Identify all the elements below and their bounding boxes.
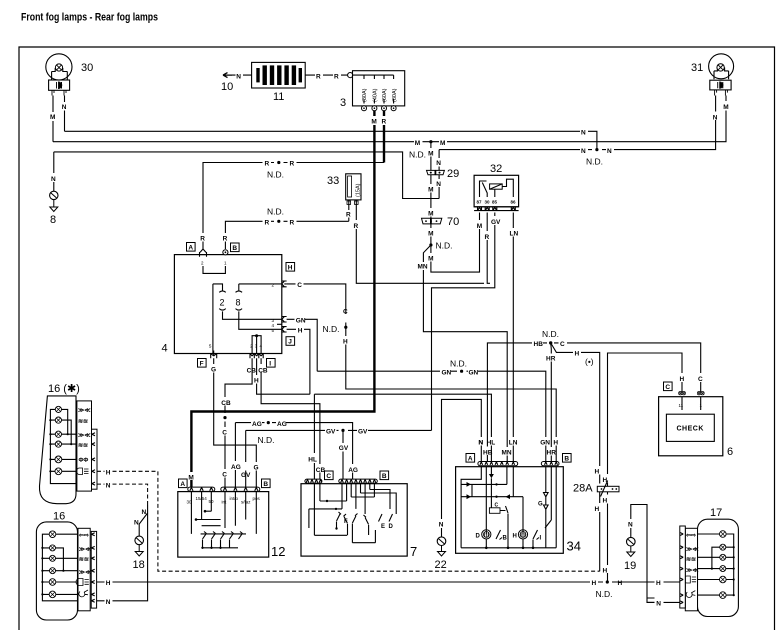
ground 18 — [135, 536, 144, 556]
switch 7 box — [301, 484, 407, 556]
svg-text:16: 16 — [53, 511, 65, 523]
svg-text:33: 33 — [327, 175, 339, 187]
svg-text:H: H — [603, 567, 608, 574]
svg-text:B: B — [263, 481, 268, 488]
svg-text:N: N — [478, 440, 483, 447]
svg-text:30: 30 — [81, 62, 93, 74]
svg-text:C: C — [326, 473, 331, 480]
svg-text:N.D.: N.D. — [267, 170, 284, 180]
connector 17 body — [698, 519, 739, 616]
wire N to ground 22 — [442, 399, 482, 537]
svg-text:29: 29 — [447, 168, 459, 180]
relay 32 — [474, 175, 518, 210]
wire AG line — [234, 423, 236, 488]
wire GV from relay pin 85 — [432, 213, 495, 431]
svg-text:≫≪: ≫≪ — [686, 547, 699, 553]
wire N corner from 29 — [438, 150, 440, 199]
svg-text:Front fog lamps - Rear fog lam: Front fog lamps - Rear fog lamps — [21, 12, 158, 24]
svg-text:G: G — [254, 465, 259, 472]
svg-text:70: 70 — [447, 216, 459, 228]
svg-text:N.D.: N.D. — [450, 359, 467, 369]
svg-text:H: H — [513, 534, 517, 540]
svg-text:M: M — [371, 119, 376, 126]
svg-text:19: 19 — [624, 560, 636, 572]
17 lamps and wiring — [698, 531, 735, 599]
wire N into 17 — [647, 601, 680, 603]
svg-text:M: M — [477, 223, 482, 230]
wire CB from unit4 bottom pin4 — [261, 358, 320, 479]
wire G from unit4 pin F — [214, 358, 257, 487]
svg-text:N: N — [628, 522, 633, 529]
svg-text:(30A): (30A) — [362, 88, 368, 102]
svg-text:H: H — [595, 469, 600, 476]
svg-text:86: 86 — [511, 200, 517, 205]
wire R line lower (fuse 33 to unit4 pin B) — [225, 221, 348, 249]
label GN at unit4 pin H3 — [287, 319, 318, 371]
svg-text:B: B — [232, 245, 237, 252]
wire M branch to relay 32 pin 87 — [431, 213, 480, 273]
fuse panel pins — [362, 106, 397, 111]
svg-text:11: 11 — [273, 91, 284, 103]
wire HR branch — [550, 343, 553, 462]
wire M thick from fuse 40A down — [191, 111, 374, 487]
svg-text:A: A — [180, 481, 185, 488]
wire M vertical through 29 and 70 — [430, 142, 432, 245]
ground-8 line horizontal — [54, 152, 439, 199]
wire CB from unit4 bottom pin2 to C riser — [225, 358, 252, 487]
fuse panel 3 — [353, 71, 405, 106]
splice H N.D. bottom — [606, 580, 609, 583]
svg-text:≫≪: ≫≪ — [686, 568, 699, 574]
unit4 bottom pins F and I — [198, 351, 276, 368]
svg-text:H: H — [106, 470, 111, 477]
ground 8 — [50, 191, 58, 211]
svg-text:N: N — [134, 520, 139, 527]
svg-text:N: N — [581, 129, 586, 136]
svg-text:≫≪: ≫≪ — [78, 408, 91, 414]
wire N from 16 to ground 18 — [97, 513, 148, 601]
unit4 right pins H group — [272, 263, 295, 346]
svg-text:GV: GV — [339, 445, 349, 452]
svg-text:(40A): (40A) — [373, 88, 379, 102]
svg-text:C: C — [560, 341, 565, 348]
svg-text:H: H — [656, 580, 661, 587]
connector 70 — [422, 218, 442, 224]
16(*) pin column — [92, 429, 98, 489]
svg-text:LN: LN — [509, 440, 518, 447]
svg-text:8: 8 — [50, 214, 56, 226]
wire H from CHECK down to bottom splice — [608, 353, 683, 486]
svg-text:4: 4 — [162, 343, 168, 355]
16 lamps and wiring — [41, 531, 78, 601]
svg-text:R: R — [334, 73, 339, 80]
svg-text:(•): (•) — [585, 357, 594, 367]
svg-text:R: R — [316, 73, 321, 80]
16 icon strip — [76, 528, 91, 611]
svg-text:C: C — [698, 376, 703, 383]
svg-text:31: 31 — [691, 62, 703, 74]
svg-text:A: A — [468, 456, 473, 463]
16 pin column — [91, 531, 96, 608]
svg-text:C: C — [665, 384, 670, 391]
17 icon strip — [683, 528, 698, 611]
svg-text:C: C — [495, 503, 499, 509]
svg-text:CB: CB — [221, 400, 231, 407]
svg-text:N: N — [439, 522, 444, 529]
svg-text:17: 17 — [710, 507, 722, 519]
svg-text:CB: CB — [258, 368, 268, 375]
svg-text:R: R — [265, 220, 270, 227]
svg-text:M: M — [440, 140, 445, 147]
svg-text:N.D.: N.D. — [267, 207, 284, 217]
svg-text:C: C — [297, 282, 302, 289]
svg-text:GV: GV — [491, 219, 501, 226]
svg-text:R: R — [346, 212, 351, 219]
svg-text:87: 87 — [477, 200, 483, 205]
connector 29 — [427, 170, 445, 174]
label C at unit4 pin H2 — [287, 284, 346, 307]
svg-text:M: M — [428, 151, 433, 158]
svg-text:R: R — [382, 119, 387, 126]
svg-text:D: D — [389, 524, 394, 530]
34 connector B strip — [541, 454, 571, 466]
svg-text:C: C — [222, 472, 227, 479]
wire GV line with splice — [245, 430, 247, 487]
svg-text:16 (✱): 16 (✱) — [48, 383, 80, 395]
connector 16(*) body — [39, 396, 76, 504]
svg-text:18: 18 — [133, 559, 145, 571]
34 connector A strip — [466, 454, 518, 466]
svg-text:AG: AG — [231, 464, 241, 471]
item 11 (fusible link box) — [252, 62, 306, 88]
svg-text:R: R — [290, 220, 295, 227]
svg-text:HB: HB — [534, 341, 544, 348]
svg-text:CHECK: CHECK — [677, 426, 704, 433]
wire R fuse33 left pin to lower R line — [348, 205, 350, 222]
svg-text:D: D — [476, 534, 481, 540]
junction splice M N.D. — [429, 140, 432, 143]
svg-text:GN: GN — [442, 369, 452, 376]
svg-text:H: H — [254, 378, 259, 385]
unit4 pin A — [187, 243, 207, 266]
svg-text:H: H — [575, 351, 580, 358]
svg-text:G: G — [538, 502, 543, 508]
wire N dashed from 16(*) to ground 18 — [97, 484, 148, 505]
svg-text:N.D.: N.D. — [436, 241, 453, 251]
switch7 internal wiring — [309, 484, 396, 543]
svg-text:≋≊: ≋≊ — [78, 419, 88, 425]
svg-text:(80A): (80A) — [392, 88, 398, 102]
wire HL line to 34 — [314, 394, 491, 461]
CHECK unit 6 — [659, 382, 723, 456]
svg-text:N.D.: N.D. — [409, 150, 426, 160]
svg-text:CB: CB — [247, 368, 257, 375]
svg-text:GV: GV — [326, 429, 336, 436]
svg-text:int/o: int/o — [230, 496, 239, 501]
16(*) lamps and wiring — [49, 406, 91, 483]
svg-text:AG: AG — [348, 467, 358, 474]
wire R item11 to fuse panel 3 — [305, 74, 348, 76]
svg-text:N: N — [713, 115, 718, 122]
svg-text:N: N — [106, 599, 111, 606]
fuse 33 (15A) — [346, 174, 362, 205]
svg-text:(60A): (60A) — [382, 88, 388, 102]
svg-text:H: H — [680, 376, 685, 383]
svg-text:C: C — [222, 430, 227, 437]
wire R fuse33 right pin down to relay 32 feed — [356, 205, 490, 284]
svg-text:C: C — [343, 308, 348, 315]
svg-text:N: N — [436, 181, 441, 188]
svg-text:≫≪: ≫≪ — [78, 433, 91, 439]
label H at unit4 pin H5 — [287, 329, 310, 394]
svg-text:N: N — [581, 148, 586, 155]
connector 16 body — [36, 522, 77, 620]
svg-text:30: 30 — [485, 200, 491, 205]
unit4 internal contacts 2 and 8 — [213, 284, 282, 354]
svg-text:GN: GN — [296, 317, 306, 324]
unit 4 box — [174, 255, 281, 354]
wire H solid from 16 across page — [97, 581, 680, 583]
svg-text:N: N — [236, 73, 241, 80]
svg-text:R: R — [200, 235, 205, 242]
svg-text:R: R — [485, 234, 490, 241]
wire GN horizontal with N.D. splice — [317, 371, 546, 461]
svg-text:MN: MN — [418, 264, 428, 271]
svg-text:J: J — [288, 339, 292, 346]
wire N lamp30 down — [64, 96, 66, 132]
lamp 30 (front fog lamp left) — [46, 54, 72, 96]
wire R thick from fuse 60A down — [383, 111, 385, 163]
svg-text:HL: HL — [308, 456, 317, 463]
svg-text:N.D.: N.D. — [323, 324, 340, 334]
svg-text:32: 32 — [490, 163, 502, 175]
unit4 internal top bracket — [203, 266, 225, 273]
svg-text:7: 7 — [410, 544, 417, 559]
svg-text:H: H — [553, 440, 558, 447]
svg-text:28A: 28A — [573, 483, 593, 495]
wire H below 28A to bottom splice — [607, 492, 609, 582]
svg-text:ΦΦ: ΦΦ — [79, 458, 89, 464]
svg-text:8: 8 — [236, 298, 241, 308]
svg-text:N: N — [106, 482, 111, 489]
svg-text:M: M — [428, 187, 433, 194]
svg-text:GV: GV — [358, 429, 368, 436]
arrow 10 — [223, 73, 232, 78]
switch7 connector B strip — [339, 471, 389, 483]
16(*) icon strip — [77, 401, 92, 491]
svg-text:N: N — [436, 160, 441, 167]
svg-text:M: M — [428, 211, 433, 218]
wire M horizontal lamp30 to lamp31 — [53, 96, 726, 142]
ground 19 wire N — [631, 505, 655, 603]
wire GV branch down to switch 7 — [342, 430, 344, 479]
wire N horizontal to x596.9 — [65, 131, 597, 149]
svg-text:≋≊: ≋≊ — [78, 443, 88, 449]
svg-text:N: N — [607, 148, 612, 155]
svg-text:N: N — [62, 104, 67, 111]
svg-text:H: H — [592, 580, 597, 587]
svg-text:R: R — [290, 161, 295, 168]
svg-text:H: H — [343, 339, 348, 346]
svg-text:≋≊: ≋≊ — [686, 557, 696, 563]
svg-text:N.D.: N.D. — [542, 329, 559, 339]
svg-text:(15A): (15A) — [356, 183, 362, 197]
svg-text:HB: HB — [483, 449, 493, 456]
svg-text:HR: HR — [547, 449, 557, 456]
svg-text:M: M — [50, 114, 55, 121]
svg-text:N: N — [656, 601, 661, 608]
wire C to CHECK unit — [554, 343, 701, 392]
svg-text:11: 11 — [679, 403, 684, 408]
svg-text:B: B — [382, 473, 387, 480]
wire MN branch — [423, 245, 507, 462]
switch12 connector A strip — [179, 479, 215, 491]
svg-text:B: B — [503, 536, 508, 542]
svg-text:GV: GV — [241, 472, 251, 479]
svg-text:E: E — [381, 524, 385, 530]
svg-text:3: 3 — [340, 97, 346, 109]
switch7 connector C strip — [305, 471, 333, 483]
svg-text:N: N — [51, 176, 56, 183]
svg-text:12: 12 — [271, 544, 285, 559]
svg-text:LN: LN — [510, 231, 519, 238]
junction splice N N.D. — [595, 148, 598, 151]
svg-text:2: 2 — [220, 298, 225, 308]
svg-text:AG: AG — [277, 421, 287, 428]
svg-text:85: 85 — [492, 200, 498, 205]
svg-text:M: M — [428, 256, 433, 263]
17 pin column — [680, 526, 686, 608]
svg-text:AG: AG — [252, 421, 262, 428]
svg-text:N.D.: N.D. — [586, 157, 603, 167]
svg-text:R: R — [354, 223, 359, 230]
splice M/MN N.D. below 70 — [429, 243, 432, 246]
wire N arrow to item 11 — [232, 74, 252, 76]
svg-text:M: M — [188, 475, 193, 482]
svg-text:22: 22 — [435, 559, 447, 571]
ground 22 — [437, 537, 446, 556]
svg-text:R: R — [223, 235, 228, 242]
svg-text:H: H — [595, 506, 600, 513]
switch12 pin names — [187, 496, 261, 505]
svg-text:⇦⇨: ⇦⇨ — [685, 533, 696, 539]
svg-text:34: 34 — [567, 539, 581, 554]
svg-text:GN: GN — [540, 440, 550, 447]
svg-text:I: I — [269, 361, 271, 368]
wire H below 28A to dashed junction — [599, 492, 601, 571]
svg-text:H: H — [603, 498, 608, 505]
svg-text:≫≪: ≫≪ — [79, 570, 92, 576]
switch12 internal contacts — [191, 492, 256, 549]
svg-text:M: M — [428, 231, 433, 238]
wire LN from relay pin 86 — [512, 213, 514, 462]
svg-text:H: H — [106, 580, 111, 587]
wire H (*) branch to fuse 28A — [551, 343, 600, 484]
fuse 28A — [597, 481, 619, 497]
switch12 connector B strip — [221, 479, 270, 491]
wire M lamp30 down — [52, 96, 54, 142]
34 internal circuit — [461, 467, 556, 549]
lamp 31 (front fog lamp right) — [709, 54, 734, 96]
wire C/H vertical with N.D. splice — [346, 307, 556, 462]
svg-text:10: 10 — [221, 81, 233, 93]
svg-text:B: B — [564, 456, 569, 463]
svg-text:≋≊: ≋≊ — [79, 557, 89, 563]
svg-text:H: H — [288, 265, 293, 272]
unit4 pin B — [223, 243, 239, 266]
svg-text:MN: MN — [502, 449, 512, 456]
ground 19 — [627, 537, 636, 556]
svg-text:≫≪: ≫≪ — [79, 547, 92, 553]
svg-text:M: M — [415, 140, 420, 147]
svg-text:M: M — [723, 104, 728, 111]
svg-text:H: H — [298, 327, 303, 334]
switch 12 box — [178, 492, 269, 557]
svg-text:N.D.: N.D. — [258, 435, 275, 445]
svg-text:R: R — [265, 161, 270, 168]
svg-text:A: A — [188, 245, 193, 252]
wire R line upper (fuse60A to unit4 pin A) — [203, 163, 384, 250]
svg-text:G: G — [211, 367, 216, 374]
wire N lower horizontal to lamp31 — [439, 96, 715, 150]
svg-text:GN: GN — [469, 369, 479, 376]
wire H from unit4 bottom pin3 — [257, 358, 310, 394]
wire HB from 34 up with N.D. splice — [487, 343, 547, 462]
svg-text:HR: HR — [546, 356, 556, 363]
svg-text:int: int — [222, 500, 228, 505]
svg-text:6: 6 — [727, 446, 733, 458]
wire N down to ground 8 — [53, 152, 55, 191]
wire H dashed from 16(*) — [97, 471, 600, 571]
unit4 internal bottom bracket pins 2 3 4 — [209, 334, 263, 353]
unit 34 box — [456, 467, 564, 554]
svg-text:N.D.: N.D. — [596, 589, 613, 599]
svg-text:N: N — [142, 509, 147, 516]
svg-text:⇦⇨: ⇦⇨ — [78, 533, 89, 539]
svg-text:F: F — [200, 361, 204, 368]
svg-text:H: H — [618, 580, 623, 587]
